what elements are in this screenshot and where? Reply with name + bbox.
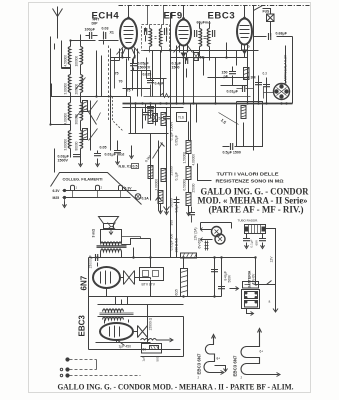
svg-text:50: 50	[143, 348, 147, 352]
svg-text:500V: 500V	[228, 274, 232, 283]
svg-text:DIP: DIP	[92, 22, 99, 26]
svg-text:100000: 100000	[75, 56, 79, 67]
svg-text:0.5: 0.5	[133, 165, 138, 169]
svg-text:70: 70	[119, 80, 123, 84]
svg-text:0.50000: 0.50000	[183, 179, 187, 191]
svg-text:EBC3: EBC3	[208, 11, 236, 22]
svg-text:0.03: 0.03	[102, 27, 109, 31]
svg-text:6.3: 6.3	[263, 72, 268, 76]
svg-text:X1: X1	[110, 31, 114, 35]
svg-text:0.025: 0.025	[143, 73, 152, 77]
svg-text:1.00000: 1.00000	[155, 179, 159, 191]
svg-text:EBC3: EBC3	[78, 315, 87, 337]
svg-text:θ+: θ+	[217, 357, 221, 361]
svg-text:0.01μF: 0.01μF	[227, 90, 239, 94]
svg-text:1500CV: 1500CV	[138, 66, 151, 70]
svg-text:ECH4: ECH4	[92, 11, 120, 22]
svg-text:75: 75	[127, 89, 131, 93]
svg-text:100 Ω 0.5: 100 Ω 0.5	[175, 238, 179, 253]
svg-text:N.B. X1: N.B. X1	[119, 165, 132, 169]
svg-text:RESISTENZE SONO IN MΩ: RESISTENZE SONO IN MΩ	[216, 179, 284, 184]
svg-text:0.1μF 1500V: 0.1μF 1500V	[170, 121, 174, 141]
svg-text:0.05: 0.05	[100, 146, 107, 150]
svg-text:100pF: 100pF	[85, 28, 96, 32]
svg-text:3M: 3M	[251, 76, 256, 80]
svg-text:0.68μF: 0.68μF	[276, 32, 288, 36]
svg-text:6N7: 6N7	[80, 275, 89, 290]
svg-text:1.50000: 1.50000	[183, 152, 187, 164]
svg-text:80000: 80000	[75, 141, 79, 150]
svg-text:15000μF: 15000μF	[89, 255, 93, 268]
svg-text:BTV LTV: BTV LTV	[142, 283, 156, 287]
svg-text:M25: M25	[53, 196, 60, 200]
svg-text:25000: 25000	[170, 166, 174, 175]
svg-text:1500: 1500	[172, 66, 180, 70]
svg-text:TLS: TLS	[178, 116, 184, 120]
svg-text:25000: 25000	[192, 183, 196, 192]
svg-text:0.05μF: 0.05μF	[175, 135, 179, 145]
svg-text:EBC3 6N7: EBC3 6N7	[197, 353, 202, 375]
svg-text:LAMP.SCALA 6.3V: LAMP.SCALA 6.3V	[284, 54, 288, 83]
svg-text:FUS: FUS	[263, 10, 271, 14]
svg-text:15000 Ω: 15000 Ω	[149, 317, 153, 330]
svg-text:GALLO ING. G. - CONDOR MOD. -: GALLO ING. G. - CONDOR MOD. - MEHARA . I…	[58, 382, 294, 392]
svg-text:TUTTI I VALORI DELLE: TUTTI I VALORI DELLE	[217, 172, 279, 177]
svg-text:3.00000: 3.00000	[64, 83, 68, 95]
svg-text:1500V: 1500V	[58, 159, 69, 163]
svg-text:0.5μF 1500: 0.5μF 1500	[223, 151, 241, 155]
svg-text:6.3V: 6.3V	[125, 187, 133, 191]
svg-text:200000: 200000	[75, 84, 79, 95]
svg-text:65V: 65V	[255, 239, 259, 245]
svg-text:50: 50	[159, 117, 163, 121]
svg-text:75: 75	[115, 72, 119, 76]
svg-text:0.3A: 0.3A	[142, 197, 150, 201]
svg-text:12V-6V: 12V-6V	[252, 273, 256, 285]
svg-text:6Ω5: 6Ω5	[175, 289, 179, 295]
svg-text:6+: 6+	[260, 350, 264, 354]
svg-text:0.1μF: 0.1μF	[250, 239, 254, 247]
svg-text:a: a	[269, 300, 271, 304]
svg-text:4.50000: 4.50000	[64, 55, 68, 67]
svg-text:6.3V: 6.3V	[53, 189, 61, 193]
svg-text:60μFmA: 60μFmA	[197, 21, 212, 25]
svg-text:4.00000: 4.00000	[192, 154, 196, 166]
svg-text:50: 50	[200, 56, 204, 60]
svg-text:EBC3 6N7: EBC3 6N7	[233, 355, 238, 377]
svg-text:300000: 300000	[75, 114, 79, 125]
svg-text:3 mΩ: 3 mΩ	[92, 229, 96, 238]
svg-text:TUBO RADDR.: TUBO RADDR.	[238, 219, 259, 223]
svg-text:900: 900	[170, 220, 174, 226]
svg-text:6V-600: 6V-600	[198, 238, 202, 249]
svg-text:1μF 450: 1μF 450	[119, 345, 132, 349]
svg-text:0.4μF: 0.4μF	[155, 82, 165, 86]
svg-text:0.1μF: 0.1μF	[175, 172, 179, 181]
svg-text:0.05μF 600: 0.05μF 600	[170, 234, 174, 251]
svg-text:COLLEG. FILAMENTI: COLLEG. FILAMENTI	[63, 177, 103, 182]
svg-text:12V: 12V	[270, 256, 274, 263]
svg-text:3.60000: 3.60000	[64, 139, 68, 151]
svg-text:4.00000: 4.00000	[64, 113, 68, 125]
svg-text:0.01μF mcd: 0.01μF mcd	[105, 153, 125, 157]
svg-text:(PARTE AF - MF - RIV.): (PARTE AF - MF - RIV.)	[209, 205, 304, 215]
